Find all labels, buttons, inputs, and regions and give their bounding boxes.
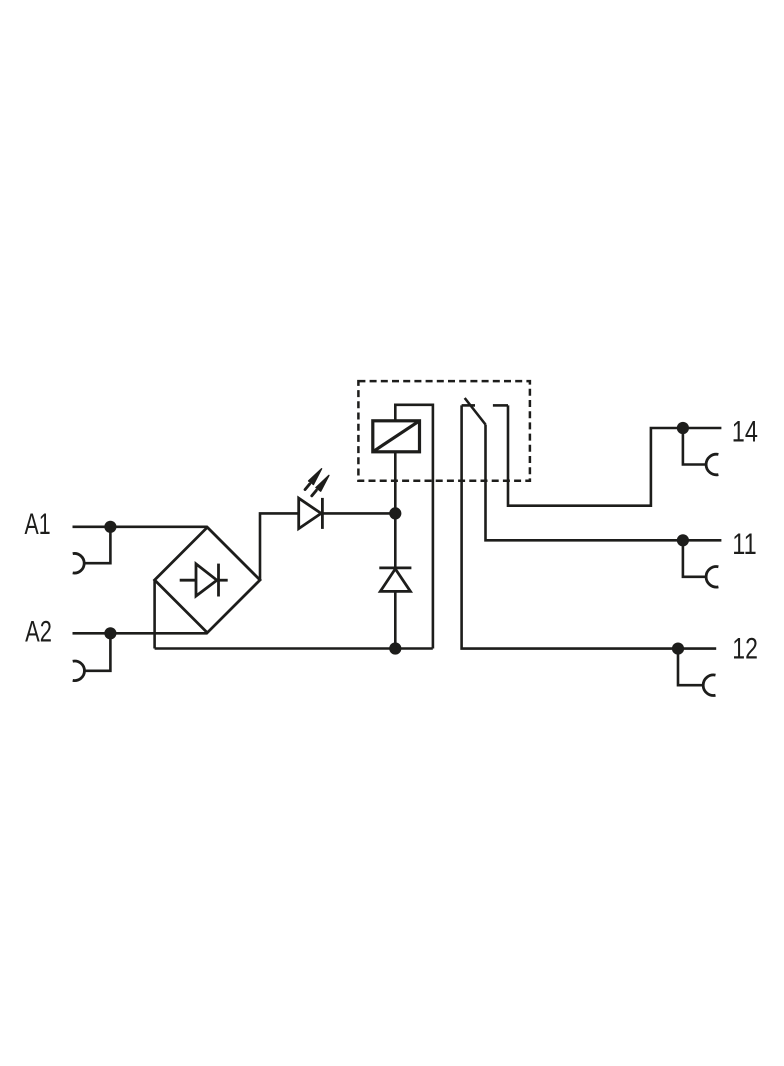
bridge rectifier B1 outline <box>155 527 260 632</box>
wire common pole down to terminal 11 <box>486 425 683 541</box>
wire A1 clamp stub <box>84 527 110 563</box>
wire 11 clamp stub <box>683 540 706 577</box>
svg-text:A2: A2 <box>25 615 52 648</box>
wire A2 clamp stub <box>84 633 110 671</box>
bridge rectifier B1 inner diode <box>180 564 228 597</box>
clamp terminal 14 <box>706 454 718 475</box>
wire diode anode down to rail junction <box>394 591 397 648</box>
switch movable blade (common) <box>465 398 486 425</box>
wire 14 clamp stub <box>683 428 706 465</box>
svg-text:A1: A1 <box>25 508 51 541</box>
wire bridge left vertex down to bottom rail <box>153 580 156 649</box>
node A1 junction <box>104 521 116 533</box>
node LED / coil bottom junction <box>389 507 401 519</box>
clamp terminal 11 <box>706 567 718 588</box>
node terminal 14 junction <box>677 422 689 434</box>
wire coil bottom lead down to diode cathode <box>394 452 397 568</box>
node coil return junction on rail <box>389 642 401 654</box>
diode D1 flyback cathode bar <box>379 567 411 570</box>
relay boundary dashed box <box>358 381 530 481</box>
LED D2 cathode bar <box>321 498 324 529</box>
switch NO contact arm (to 14) <box>493 404 508 407</box>
wire NC pole down to terminal 12 <box>462 405 678 648</box>
wire coil top loop to rail <box>395 405 433 649</box>
wire A2 to bridge bottom vertex <box>73 632 208 635</box>
node A2 junction <box>104 627 116 639</box>
clamp terminal A2 <box>73 661 85 681</box>
svg-text:14: 14 <box>732 416 758 449</box>
clamp terminal 12 <box>703 675 715 696</box>
wire terminal 14 end <box>683 427 722 430</box>
clamp terminal A1 <box>73 553 85 573</box>
LED D2 light arrow 1 <box>305 469 322 490</box>
relay coil K1 <box>373 421 420 452</box>
switch NC contact arm (to 12) <box>462 404 475 407</box>
LED D2 light arrow 2 <box>312 475 329 495</box>
wire terminal 11 end <box>683 539 722 542</box>
wire 12 clamp stub <box>678 649 703 686</box>
wire bottom rail <box>155 647 433 650</box>
wire terminal 12 end <box>678 647 716 650</box>
wire A1 to bridge top vertex <box>73 525 208 528</box>
wire bridge right vertex up to LED <box>260 513 299 580</box>
node terminal 12 junction <box>672 643 684 655</box>
node terminal 11 junction <box>677 534 689 546</box>
svg-text:11: 11 <box>732 528 756 561</box>
wire LED cathode to coil node <box>322 512 395 515</box>
wire NO pole down and over to terminal 14 <box>508 405 683 505</box>
svg-text:12: 12 <box>732 633 758 666</box>
LED D2 triangle <box>299 498 321 528</box>
diode D1 flyback triangle <box>380 569 410 592</box>
